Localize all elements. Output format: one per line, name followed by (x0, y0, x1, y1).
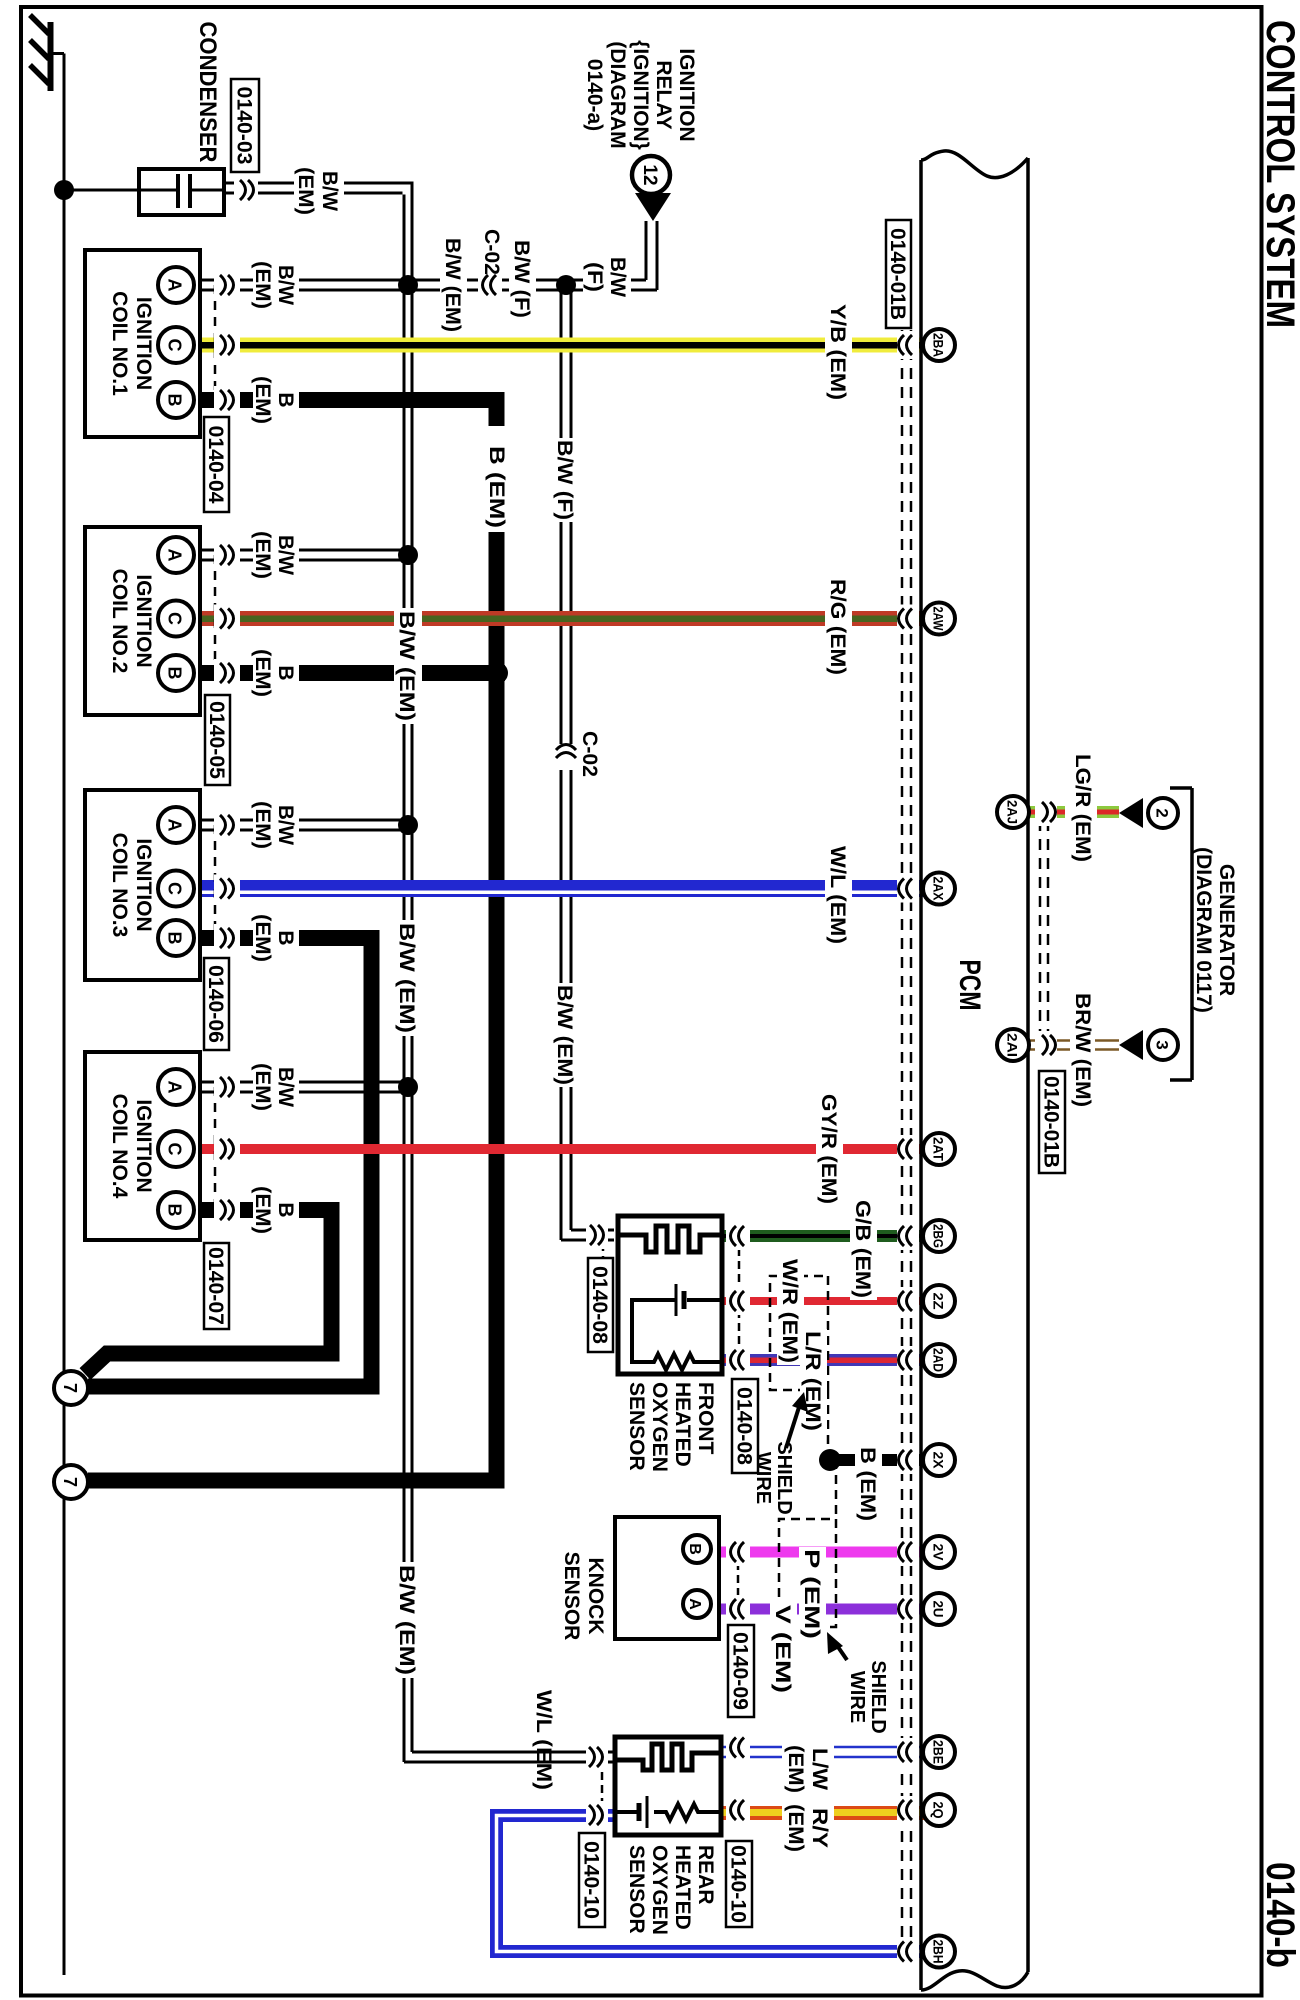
svg-text:(EM): (EM) (251, 801, 274, 849)
svg-text:2AI: 2AI (1005, 1033, 1020, 1057)
svg-text:0140-a): 0140-a) (583, 59, 606, 131)
svg-text:A: A (686, 1598, 703, 1610)
svg-text:C: C (165, 339, 185, 352)
svg-text:COIL NO.3: COIL NO.3 (108, 833, 131, 938)
svg-text:SENSOR: SENSOR (560, 1552, 583, 1641)
svg-text:2BG: 2BG (931, 1224, 946, 1248)
svg-text:0140-09: 0140-09 (729, 1632, 752, 1710)
svg-text:(EM): (EM) (784, 1745, 807, 1793)
svg-text:W/L (EM): W/L (EM) (532, 1690, 555, 1790)
svg-text:C: C (165, 882, 185, 895)
svg-text:R/Y: R/Y (808, 1808, 831, 1848)
svg-text:C-02: C-02 (480, 229, 503, 275)
svg-text:2: 2 (1153, 808, 1172, 817)
svg-text:CONTROL SYSTEM: CONTROL SYSTEM (1258, 20, 1300, 328)
svg-text:2AW: 2AW (931, 607, 946, 631)
svg-text:0140-07: 0140-07 (204, 1247, 227, 1325)
svg-text:2Q: 2Q (931, 1802, 946, 1819)
svg-text:2X: 2X (931, 1452, 946, 1469)
svg-text:7: 7 (60, 1477, 80, 1487)
svg-text:12: 12 (639, 164, 660, 185)
svg-text:3: 3 (1153, 1040, 1172, 1049)
svg-text:SHIELD: SHIELD (773, 1441, 795, 1514)
svg-text:GENERATOR: GENERATOR (1215, 864, 1238, 996)
svg-text:IGNITION: IGNITION (132, 838, 155, 931)
svg-text:0140-b: 0140-b (1258, 1862, 1300, 1968)
svg-text:7: 7 (60, 1383, 80, 1393)
svg-text:B: B (274, 392, 297, 407)
svg-text:FRONT: FRONT (694, 1382, 717, 1454)
svg-text:REAR: REAR (694, 1845, 717, 1905)
svg-text:B/W (EM): B/W (EM) (441, 238, 464, 332)
svg-text:2BE: 2BE (931, 1740, 946, 1764)
svg-text:B: B (165, 394, 185, 407)
svg-text:B/W: B/W (274, 265, 297, 305)
svg-text:B: B (686, 1543, 703, 1555)
svg-text:(DIAGRAM: (DIAGRAM (606, 41, 629, 148)
svg-text:CONDENSER: CONDENSER (194, 22, 221, 163)
svg-text:IGNITION: IGNITION (132, 297, 155, 390)
svg-text:RELAY: RELAY (652, 60, 675, 129)
svg-text:(F): (F) (583, 262, 606, 292)
svg-text:(EM): (EM) (294, 167, 317, 215)
svg-text:B/W: B/W (606, 257, 629, 297)
svg-text:C: C (165, 612, 185, 625)
svg-text:A: A (165, 1081, 185, 1094)
svg-text:B: B (165, 667, 185, 680)
svg-text:A: A (165, 819, 185, 832)
svg-text:P (EM): P (EM) (800, 1549, 823, 1639)
svg-text:WIRE: WIRE (752, 1452, 774, 1504)
svg-text:(EM): (EM) (251, 1186, 274, 1234)
svg-text:B/W: B/W (274, 1067, 297, 1107)
svg-text:2BA: 2BA (931, 333, 946, 357)
svg-text:IGNITION: IGNITION (132, 1099, 155, 1192)
svg-text:Y/B (EM): Y/B (EM) (826, 304, 849, 400)
svg-text:(EM): (EM) (251, 531, 274, 579)
svg-text:L/R (EM): L/R (EM) (801, 1331, 824, 1431)
svg-text:0140-01B: 0140-01B (1040, 1076, 1063, 1168)
svg-text:SENSOR: SENSOR (625, 1845, 648, 1934)
svg-text:0140-10: 0140-10 (580, 1841, 603, 1919)
svg-text:SHIELD: SHIELD (867, 1660, 889, 1733)
svg-text:HEATED: HEATED (671, 1382, 694, 1467)
svg-text:(EM): (EM) (251, 914, 274, 962)
svg-text:B/W: B/W (274, 535, 297, 575)
svg-text:C-02: C-02 (578, 731, 601, 777)
svg-text:B/W (EM): B/W (EM) (395, 923, 418, 1033)
svg-text:LG/R (EM): LG/R (EM) (1071, 754, 1094, 862)
svg-text:0140-04: 0140-04 (204, 426, 227, 504)
svg-text:{IGNITION}: {IGNITION} (629, 40, 652, 150)
svg-text:B: B (165, 932, 185, 945)
svg-text:A: A (165, 279, 185, 292)
svg-text:B (EM): B (EM) (485, 446, 508, 528)
svg-text:0140-08: 0140-08 (588, 1266, 611, 1344)
svg-text:B: B (274, 665, 297, 680)
svg-text:IGNITION: IGNITION (675, 48, 698, 141)
svg-text:B: B (165, 1204, 185, 1217)
svg-text:2Z: 2Z (931, 1293, 946, 1310)
svg-text:L/W: L/W (808, 1748, 831, 1790)
svg-text:SENSOR: SENSOR (625, 1382, 648, 1471)
svg-text:2AT: 2AT (931, 1137, 946, 1162)
svg-text:2V: 2V (931, 1544, 946, 1561)
svg-text:KNOCK: KNOCK (584, 1558, 607, 1635)
svg-text:(EM): (EM) (251, 376, 274, 424)
svg-text:B/W: B/W (318, 171, 341, 211)
svg-text:2AJ: 2AJ (1005, 800, 1020, 824)
svg-text:B/W (F): B/W (F) (510, 240, 533, 318)
svg-text:IGNITION: IGNITION (132, 574, 155, 667)
svg-text:WIRE: WIRE (846, 1671, 868, 1723)
svg-text:COIL NO.1: COIL NO.1 (108, 291, 131, 396)
svg-text:B/W (EM): B/W (EM) (395, 611, 418, 721)
svg-text:B: B (274, 1202, 297, 1217)
svg-text:COIL NO.4: COIL NO.4 (108, 1094, 131, 1199)
svg-text:0140-03: 0140-03 (233, 87, 256, 165)
svg-text:B: B (274, 930, 297, 945)
svg-text:COIL NO.2: COIL NO.2 (108, 569, 131, 674)
svg-text:(EM): (EM) (784, 1804, 807, 1852)
svg-text:(EM): (EM) (251, 261, 274, 309)
svg-text:0140-06: 0140-06 (204, 965, 227, 1043)
svg-text:(EM): (EM) (251, 1063, 274, 1111)
svg-text:2BH: 2BH (931, 1940, 946, 1964)
svg-text:B (EM): B (EM) (856, 1447, 879, 1521)
svg-text:0140-10: 0140-10 (727, 1845, 750, 1923)
svg-text:2U: 2U (931, 1601, 946, 1618)
svg-text:GY/R (EM): GY/R (EM) (817, 1094, 840, 1204)
svg-text:OXYGEN: OXYGEN (648, 1382, 671, 1472)
svg-text:R/G (EM): R/G (EM) (826, 579, 849, 675)
svg-text:PCM: PCM (953, 960, 986, 1011)
svg-text:W/R (EM): W/R (EM) (778, 1259, 801, 1363)
svg-text:OXYGEN: OXYGEN (648, 1845, 671, 1935)
svg-text:C: C (165, 1143, 185, 1156)
svg-text:(EM): (EM) (251, 649, 274, 697)
svg-text:W/L (EM): W/L (EM) (826, 846, 849, 944)
svg-text:2AX: 2AX (931, 877, 946, 901)
svg-text:(DIAGRAM 0117): (DIAGRAM 0117) (1192, 847, 1215, 1013)
svg-text:HEATED: HEATED (671, 1845, 694, 1930)
svg-text:A: A (165, 549, 185, 562)
svg-text:0140-01B: 0140-01B (886, 228, 909, 320)
svg-text:V (EM): V (EM) (771, 1605, 794, 1693)
svg-text:2AD: 2AD (931, 1348, 946, 1372)
svg-text:BR/W (EM): BR/W (EM) (1071, 993, 1094, 1107)
svg-text:B/W (F): B/W (F) (553, 440, 576, 520)
svg-text:B/W: B/W (274, 805, 297, 845)
svg-text:B/W (EM): B/W (EM) (395, 1565, 418, 1675)
svg-text:B/W (EM): B/W (EM) (553, 985, 576, 1085)
svg-text:0140-05: 0140-05 (205, 701, 228, 779)
svg-text:G/B (EM): G/B (EM) (851, 1200, 874, 1298)
